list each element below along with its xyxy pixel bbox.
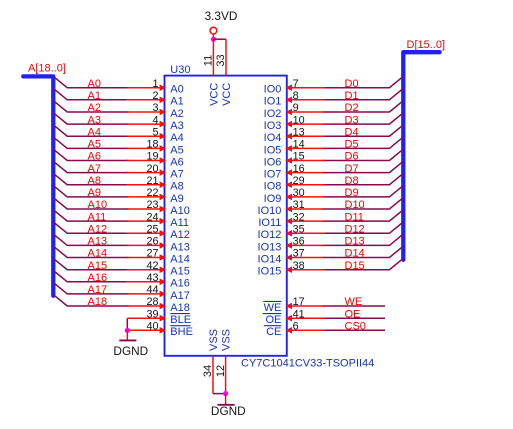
svg-text:A9: A9 xyxy=(170,193,183,205)
wire A16 with bus entry xyxy=(54,271,129,282)
svg-text:IO14: IO14 xyxy=(258,253,282,265)
wire D2 with bus entry xyxy=(323,101,403,112)
pin 2 (A1) xyxy=(127,97,167,104)
wire D8 with bus entry xyxy=(323,174,403,185)
pin name BLE (active low) xyxy=(170,314,191,327)
svg-text:14: 14 xyxy=(293,139,305,151)
svg-text:DGND: DGND xyxy=(211,404,246,418)
wire A2 with bus entry xyxy=(54,101,129,112)
pin 23 (A10) xyxy=(127,206,167,213)
pin 34 (VSS) xyxy=(212,356,214,394)
svg-text:D[15..0]: D[15..0] xyxy=(407,39,446,51)
svg-text:22: 22 xyxy=(146,187,158,199)
bus D[15..0] xyxy=(403,52,439,260)
wire D1 with bus entry xyxy=(323,89,403,100)
pin 35 (IO12) xyxy=(285,230,324,237)
wire D4 with bus entry xyxy=(323,125,403,136)
wire D10 with bus entry xyxy=(323,198,403,209)
svg-text:10: 10 xyxy=(293,114,305,126)
svg-text:38: 38 xyxy=(293,260,305,272)
svg-text:A12: A12 xyxy=(88,224,108,236)
svg-text:34: 34 xyxy=(202,365,214,377)
pin 8 (IO1) xyxy=(285,97,324,104)
pin 36 (IO13) xyxy=(285,242,324,249)
svg-text:VCC: VCC xyxy=(209,83,221,106)
svg-text:3.3VD: 3.3VD xyxy=(205,9,238,23)
wire A6 with bus entry xyxy=(54,150,129,161)
svg-text:37: 37 xyxy=(293,248,305,260)
svg-text:A1: A1 xyxy=(170,96,183,108)
svg-text:OE: OE xyxy=(345,308,361,320)
svg-text:32: 32 xyxy=(293,211,305,223)
pin 1 (A0) xyxy=(127,84,167,91)
wire A11 with bus entry xyxy=(54,210,129,221)
pin 17 (WE, active low) xyxy=(285,303,324,310)
svg-text:A17: A17 xyxy=(88,284,108,296)
pin 10 (IO3) xyxy=(285,121,324,128)
svg-text:A13: A13 xyxy=(88,236,108,248)
svg-text:27: 27 xyxy=(146,248,158,260)
pin 9 (IO2) xyxy=(285,109,324,116)
svg-text:A12: A12 xyxy=(170,229,190,241)
junction VSS node xyxy=(223,391,228,396)
svg-text:9: 9 xyxy=(293,102,299,114)
svg-text:1: 1 xyxy=(152,78,158,90)
svg-text:A3: A3 xyxy=(88,114,101,126)
svg-text:A18: A18 xyxy=(88,296,108,308)
svg-text:A1: A1 xyxy=(88,90,101,102)
svg-text:39: 39 xyxy=(146,308,158,320)
svg-text:A13: A13 xyxy=(170,241,190,253)
wire A8 with bus entry xyxy=(54,174,129,185)
svg-text:A18: A18 xyxy=(170,302,190,314)
svg-text:IO0: IO0 xyxy=(264,84,282,96)
svg-text:D11: D11 xyxy=(345,211,364,223)
svg-text:31: 31 xyxy=(293,199,305,211)
svg-text:15: 15 xyxy=(293,151,305,163)
pin name OE with overbar xyxy=(263,314,282,327)
svg-text:CY7C1041CV33-TSOPII44: CY7C1041CV33-TSOPII44 xyxy=(241,357,374,369)
pin 29 (IO8) xyxy=(285,181,324,188)
pin 32 (IO11) xyxy=(285,218,324,225)
svg-text:D2: D2 xyxy=(345,102,359,114)
svg-text:4: 4 xyxy=(152,114,158,126)
wire pin34 to pin12 xyxy=(213,393,226,395)
junction 3.3VD node xyxy=(211,37,216,42)
svg-text:35: 35 xyxy=(293,224,305,236)
svg-text:IO10: IO10 xyxy=(258,205,282,217)
power port 3.3VD xyxy=(205,9,238,39)
svg-text:A4: A4 xyxy=(170,132,183,144)
svg-text:A14: A14 xyxy=(170,253,190,265)
svg-text:A6: A6 xyxy=(88,151,101,163)
svg-text:A15: A15 xyxy=(170,266,190,278)
svg-text:BLE: BLE xyxy=(170,314,191,326)
svg-text:IO5: IO5 xyxy=(264,144,282,156)
svg-text:25: 25 xyxy=(146,224,158,236)
svg-text:A4: A4 xyxy=(88,126,101,138)
svg-text:A17: A17 xyxy=(170,290,190,302)
svg-text:WE: WE xyxy=(264,302,282,314)
pin 30 (IO9) xyxy=(285,194,324,201)
pin 6 (CE, active low) xyxy=(285,327,324,334)
wire A9 with bus entry xyxy=(54,186,129,197)
svg-text:A16: A16 xyxy=(170,278,190,290)
svg-text:CS0: CS0 xyxy=(345,321,366,333)
wire A0 with bus entry xyxy=(54,77,129,88)
pin 3 (A2) xyxy=(127,109,167,116)
pin 37 (IO14) xyxy=(285,254,324,261)
pin 31 (IO10) xyxy=(285,206,324,213)
wire A15 with bus entry xyxy=(54,259,129,270)
pin 43 (A16) xyxy=(127,279,167,286)
svg-text:D14: D14 xyxy=(345,248,365,260)
wire OE xyxy=(323,317,385,319)
wire D7 with bus entry xyxy=(323,162,403,173)
wire A13 with bus entry xyxy=(54,235,129,246)
bus A[18..0] xyxy=(23,76,53,295)
IC U30 body xyxy=(165,76,287,356)
pin name BHE (active low) xyxy=(170,326,193,339)
pin 25 (A12) xyxy=(127,230,167,237)
svg-text:IO7: IO7 xyxy=(264,169,282,181)
svg-text:21: 21 xyxy=(146,175,158,187)
pin 42 (A15) xyxy=(127,266,167,273)
pin 28 (A18) xyxy=(127,303,167,310)
wire A12 with bus entry xyxy=(54,223,129,234)
wire D3 with bus entry xyxy=(323,113,403,124)
ground DGND (left) xyxy=(113,330,148,358)
wire A18 with bus entry xyxy=(54,295,129,306)
pin 7 (IO0) xyxy=(285,84,324,91)
svg-text:7: 7 xyxy=(293,78,299,90)
svg-text:36: 36 xyxy=(293,236,305,248)
svg-text:IO6: IO6 xyxy=(264,156,282,168)
svg-text:A0: A0 xyxy=(88,78,101,90)
svg-text:A15: A15 xyxy=(88,260,108,272)
pin name CE with overbar xyxy=(264,326,282,339)
wire BLE to BHE junction xyxy=(126,318,128,330)
wire D5 with bus entry xyxy=(323,138,403,149)
svg-text:IO9: IO9 xyxy=(264,193,282,205)
svg-text:D7: D7 xyxy=(345,163,359,175)
svg-text:40: 40 xyxy=(146,321,158,333)
svg-text:2: 2 xyxy=(152,90,158,102)
pin 4 (A3) xyxy=(127,121,167,128)
pin 27 (A14) xyxy=(127,254,167,261)
svg-text:24: 24 xyxy=(146,211,158,223)
svg-text:CE: CE xyxy=(266,326,281,338)
svg-text:IO8: IO8 xyxy=(264,181,282,193)
pin 14 (IO5) xyxy=(285,145,324,152)
wire A7 with bus entry xyxy=(54,162,129,173)
pin 44 (A17) xyxy=(127,291,167,298)
wire A14 with bus entry xyxy=(54,247,129,258)
wire D6 with bus entry xyxy=(323,150,403,161)
wire D9 with bus entry xyxy=(323,186,403,197)
pin 40 (BHE) xyxy=(127,327,166,334)
wire A3 with bus entry xyxy=(54,113,129,124)
svg-text:D15: D15 xyxy=(345,260,365,272)
svg-text:6: 6 xyxy=(293,321,299,333)
pin 5 (A4) xyxy=(127,133,167,140)
svg-text:5: 5 xyxy=(152,126,158,138)
wire A10 with bus entry xyxy=(54,198,129,209)
pin 21 (A8) xyxy=(127,181,167,188)
wire D15 with bus entry xyxy=(323,259,403,270)
svg-text:IO1: IO1 xyxy=(264,96,282,108)
svg-text:VSS: VSS xyxy=(208,329,220,351)
pin 22 (A9) xyxy=(127,194,167,201)
pin 41 (OE, active low) xyxy=(285,315,324,322)
svg-text:A5: A5 xyxy=(170,144,183,156)
svg-text:D12: D12 xyxy=(345,224,365,236)
svg-text:A2: A2 xyxy=(88,102,101,114)
pin 19 (A6) xyxy=(127,157,167,164)
wire CS0 xyxy=(323,329,385,331)
svg-text:D10: D10 xyxy=(345,199,365,211)
svg-text:IO12: IO12 xyxy=(258,229,282,241)
pin 12 (VSS) xyxy=(225,356,227,394)
svg-text:D6: D6 xyxy=(345,151,359,163)
svg-text:3: 3 xyxy=(152,102,158,114)
wire WE xyxy=(323,305,385,307)
svg-text:18: 18 xyxy=(146,139,158,151)
svg-text:BHE: BHE xyxy=(170,326,193,338)
wire D0 with bus entry xyxy=(323,77,403,88)
svg-text:IO4: IO4 xyxy=(264,132,282,144)
pin 11 (VCC) xyxy=(212,39,214,75)
pin 26 (A13) xyxy=(127,242,167,249)
pin 39 (BLE) xyxy=(127,315,166,322)
svg-text:43: 43 xyxy=(146,272,158,284)
pin 24 (A11) xyxy=(127,218,167,225)
svg-text:20: 20 xyxy=(146,163,158,175)
svg-text:D5: D5 xyxy=(345,139,359,151)
svg-text:42: 42 xyxy=(146,260,158,272)
svg-text:41: 41 xyxy=(293,308,305,320)
junction BLE/BHE xyxy=(125,328,130,333)
wire A17 with bus entry xyxy=(54,283,129,294)
svg-text:44: 44 xyxy=(146,284,158,296)
wire A4 with bus entry xyxy=(54,125,129,136)
svg-text:A6: A6 xyxy=(170,156,183,168)
svg-text:11: 11 xyxy=(203,55,215,66)
svg-text:VCC: VCC xyxy=(221,83,233,106)
wire D12 with bus entry xyxy=(323,223,403,234)
pin 15 (IO6) xyxy=(285,157,324,164)
svg-text:A3: A3 xyxy=(170,120,183,132)
pin 20 (A7) xyxy=(127,169,167,176)
svg-text:13: 13 xyxy=(293,126,305,138)
ground DGND (bottom) xyxy=(211,394,246,418)
svg-text:30: 30 xyxy=(293,187,305,199)
wire A1 with bus entry xyxy=(54,89,129,100)
svg-text:DGND: DGND xyxy=(113,344,148,358)
svg-text:D3: D3 xyxy=(345,114,359,126)
pin 38 (IO15) xyxy=(285,266,324,273)
svg-text:D0: D0 xyxy=(345,78,359,90)
svg-text:WE: WE xyxy=(345,296,363,308)
svg-text:VSS: VSS xyxy=(221,329,233,351)
svg-text:19: 19 xyxy=(146,151,158,163)
svg-text:A7: A7 xyxy=(170,169,183,181)
svg-text:26: 26 xyxy=(146,236,158,248)
wire 3.3VD to pin 33 xyxy=(213,38,226,40)
pin 13 (IO4) xyxy=(285,133,324,140)
svg-text:D9: D9 xyxy=(345,187,359,199)
svg-text:IO13: IO13 xyxy=(258,241,282,253)
wire D11 with bus entry xyxy=(323,210,403,221)
svg-text:A9: A9 xyxy=(88,187,101,199)
svg-text:23: 23 xyxy=(146,199,158,211)
svg-text:29: 29 xyxy=(293,175,305,187)
svg-text:U30: U30 xyxy=(170,64,190,76)
pin name WE with overbar xyxy=(263,301,281,314)
svg-text:D13: D13 xyxy=(345,236,365,248)
svg-text:8: 8 xyxy=(293,90,299,102)
svg-text:A2: A2 xyxy=(170,108,183,120)
svg-text:A11: A11 xyxy=(170,217,189,229)
svg-text:A11: A11 xyxy=(88,211,107,223)
pin 16 (IO7) xyxy=(285,169,324,176)
svg-text:D1: D1 xyxy=(345,90,359,102)
svg-text:OE: OE xyxy=(265,314,281,326)
svg-text:A8: A8 xyxy=(170,181,183,193)
svg-text:IO15: IO15 xyxy=(258,266,282,278)
svg-text:A10: A10 xyxy=(88,199,108,211)
svg-text:A7: A7 xyxy=(88,163,101,175)
svg-text:D8: D8 xyxy=(345,175,359,187)
svg-text:A0: A0 xyxy=(170,84,183,96)
svg-text:12: 12 xyxy=(215,365,227,377)
svg-text:A10: A10 xyxy=(170,205,190,217)
svg-text:IO11: IO11 xyxy=(258,217,281,229)
wire D13 with bus entry xyxy=(323,235,403,246)
svg-text:A5: A5 xyxy=(88,139,101,151)
pin 33 (VCC) xyxy=(225,39,227,75)
svg-text:A16: A16 xyxy=(88,272,108,284)
svg-text:A[18..0]: A[18..0] xyxy=(28,63,66,75)
svg-text:IO3: IO3 xyxy=(264,120,282,132)
svg-text:28: 28 xyxy=(146,296,158,308)
svg-text:17: 17 xyxy=(293,296,305,308)
svg-text:IO2: IO2 xyxy=(264,108,282,120)
svg-text:A8: A8 xyxy=(88,175,101,187)
wire D14 with bus entry xyxy=(323,247,403,258)
svg-text:A14: A14 xyxy=(88,248,108,260)
svg-text:D4: D4 xyxy=(345,126,359,138)
svg-text:33: 33 xyxy=(215,54,227,66)
wire A5 with bus entry xyxy=(54,138,129,149)
pin 18 (A5) xyxy=(127,145,167,152)
svg-text:16: 16 xyxy=(293,163,305,175)
